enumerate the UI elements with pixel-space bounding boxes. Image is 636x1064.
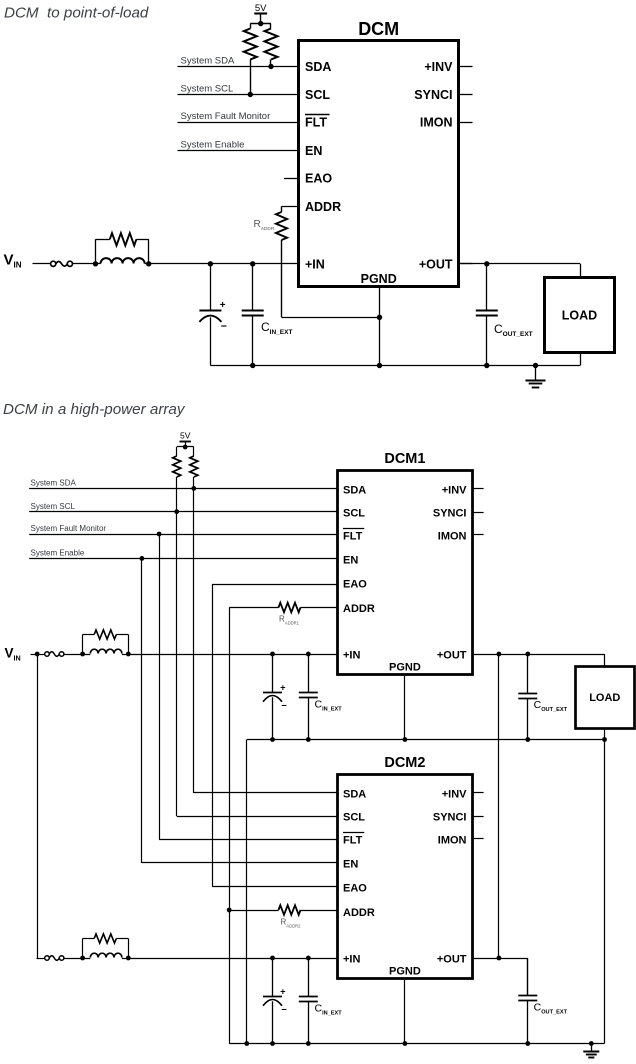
svg-text:LOAD: LOAD [589,692,620,704]
svg-text:DCM to point-of-load: DCM to point-of-load [4,5,149,22]
svg-text:ADDR: ADDR [343,907,375,919]
svg-text:DCM2: DCM2 [384,755,425,771]
svg-text:+OUT: +OUT [437,953,467,965]
svg-text:+INV: +INV [424,60,453,74]
svg-text:DCM in a high-power array: DCM in a high-power array [3,401,186,418]
svg-text:IMON: IMON [438,834,467,846]
svg-text:System Enable: System Enable [181,139,245,150]
svg-text:SCL: SCL [343,811,365,823]
svg-text:System SCL: System SCL [181,83,234,94]
svg-text:+OUT: +OUT [419,258,453,272]
svg-text:SYNCI: SYNCI [433,811,467,823]
svg-text:SDA: SDA [343,484,366,496]
svg-text:5V: 5V [180,431,191,441]
svg-text:SDA: SDA [343,788,366,800]
svg-text:+: + [280,987,285,997]
svg-text:EAO: EAO [343,578,367,590]
svg-text:System Enable: System Enable [31,549,85,558]
svg-text:EAO: EAO [305,172,332,186]
svg-text:+INV: +INV [442,788,467,800]
svg-text:DCM: DCM [358,19,399,39]
svg-text:SCL: SCL [305,88,330,102]
svg-text:+OUT: +OUT [437,649,467,661]
svg-text:FLT: FLT [343,834,363,846]
svg-text:FLT: FLT [305,116,327,130]
svg-text:EN: EN [343,858,358,870]
svg-text:EN: EN [305,144,322,158]
svg-text:IMON: IMON [438,530,467,542]
svg-text:SDA: SDA [305,60,331,74]
svg-text:PGND: PGND [361,272,397,286]
svg-text:−: − [221,320,227,332]
svg-text:SYNCI: SYNCI [433,507,467,519]
svg-text:PGND: PGND [389,966,421,978]
svg-text:System SDA: System SDA [181,55,236,66]
svg-text:System SCL: System SCL [31,502,76,511]
svg-text:−: − [281,1005,287,1016]
svg-text:EN: EN [343,554,358,566]
svg-text:LOAD: LOAD [562,309,597,323]
svg-text:IMON: IMON [420,116,453,130]
svg-text:DCM1: DCM1 [384,451,425,467]
svg-text:System SDA: System SDA [31,479,77,488]
svg-text:+IN: +IN [343,953,360,965]
svg-text:SYNCI: SYNCI [414,88,452,102]
svg-text:+INV: +INV [442,484,467,496]
svg-text:+IN: +IN [343,649,360,661]
svg-text:ADDR: ADDR [343,603,375,615]
svg-text:System Fault Monitor: System Fault Monitor [181,111,271,122]
svg-text:5V: 5V [255,3,267,14]
svg-text:ADDR: ADDR [305,200,341,214]
svg-text:System Fault Monitor: System Fault Monitor [31,524,107,533]
svg-text:SCL: SCL [343,507,365,519]
svg-text:+: + [220,300,226,311]
svg-text:+: + [280,683,285,693]
svg-text:PGND: PGND [389,662,421,674]
svg-text:EAO: EAO [343,882,367,894]
svg-text:+IN: +IN [305,258,325,272]
svg-text:FLT: FLT [343,530,363,542]
svg-text:−: − [281,701,287,712]
